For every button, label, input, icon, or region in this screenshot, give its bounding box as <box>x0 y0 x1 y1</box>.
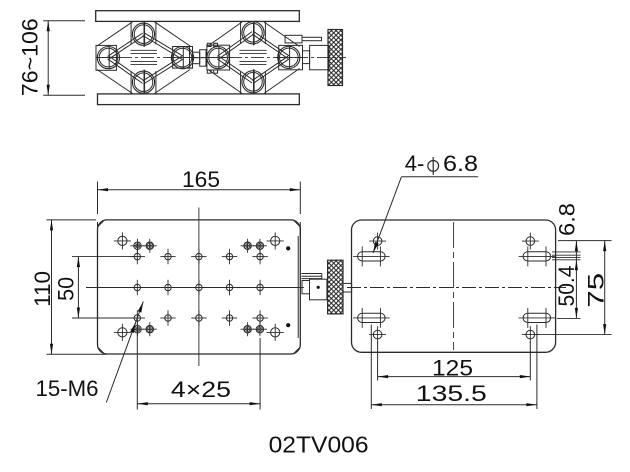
svg-text:165: 165 <box>182 167 220 192</box>
svg-text:125: 125 <box>432 356 473 381</box>
svg-text:6.8: 6.8 <box>443 151 478 176</box>
svg-text:4×25: 4×25 <box>171 377 231 402</box>
svg-text:75: 75 <box>584 273 609 308</box>
svg-text:02TV006: 02TV006 <box>269 432 369 458</box>
svg-text:50: 50 <box>54 277 79 301</box>
svg-text:15-M6: 15-M6 <box>36 376 99 401</box>
svg-text:6.8: 6.8 <box>555 203 580 236</box>
svg-text:76~106: 76~106 <box>18 18 43 96</box>
svg-text:135.5: 135.5 <box>416 381 487 406</box>
svg-text:50.4: 50.4 <box>554 266 579 307</box>
svg-text:110: 110 <box>30 271 55 307</box>
svg-text:4-: 4- <box>405 151 425 176</box>
